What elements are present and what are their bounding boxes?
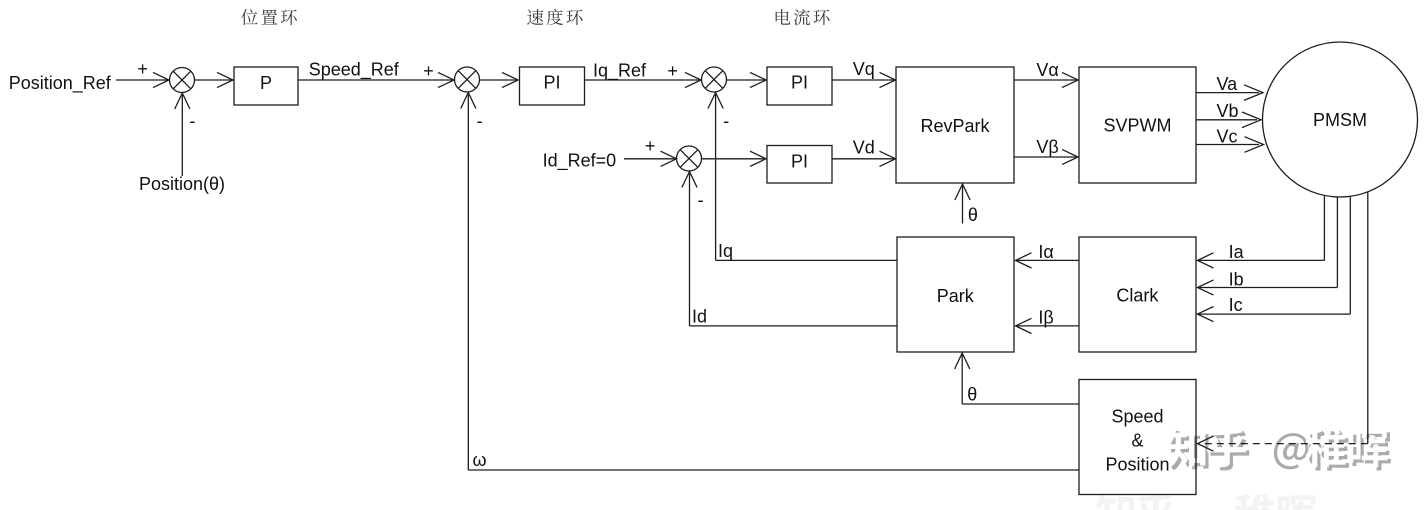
wire Ic horizontal [1199,313,1350,315]
watermark faint second row [1096,493,1317,510]
svg-text:-: - [477,111,483,131]
motor PMSM [1263,42,1418,197]
svg-text:ω: ω [473,450,487,470]
arrowhead Id feedback into SJ4 [682,172,697,188]
arrowhead Va into PMSM [1244,85,1263,101]
wire Vd [832,158,894,160]
wire Ia horizontal [1199,259,1324,261]
wire Va [1196,92,1259,94]
svg-text:Id_Ref=0: Id_Ref=0 [543,151,617,172]
arrowhead Iq feedback into SJ3 [708,93,723,109]
svg-text:θ: θ [967,385,977,405]
label 位置环 (position loop) [241,9,297,25]
svg-text:-: - [723,111,729,131]
svg-text:Ic: Ic [1229,295,1243,315]
wire Vb [1196,119,1257,121]
block Park (Park transform) [897,237,1014,352]
watermark 知乎 @稚晖 gray [1170,431,1391,471]
arrowhead into P block [217,72,233,87]
svg-text:Vq: Vq [853,59,875,79]
svg-text:Vb: Vb [1217,101,1239,121]
wire Id_Ref to SJ4 [624,158,675,160]
wire Iq horizontal from Park [716,259,897,261]
watermark white shadow copy [1167,427,1388,467]
svg-text:Speed: Speed [1111,407,1163,427]
wire sensor dashed into Speed&Position [1200,443,1368,445]
svg-text:SVPWM: SVPWM [1103,116,1171,136]
arrowhead V-beta into SVPWM [1062,149,1078,164]
svg-text:Park: Park [937,286,975,306]
wire Iq feedback vertical [715,95,717,261]
wire SJ1 to P block [195,79,232,81]
label 电流环 (current loop) [776,9,830,25]
arrowhead Vb into PMSM [1242,112,1261,128]
arrowhead theta into RevPark [955,184,970,200]
block Speed & Position estimator [1079,380,1196,495]
wire Vq [832,79,894,81]
wire Ib horizontal [1199,287,1337,289]
arrowhead I-beta into Park [1016,318,1032,333]
arrowhead into PI3 [750,151,766,166]
summing junction SJ2 (speed) [455,67,480,92]
summing junction SJ3 (Iq) [702,67,727,92]
white block fills [170,68,195,93]
svg-text:+: + [667,61,678,81]
wire Ib vertical from PMSM [1336,197,1338,288]
svg-text:Ib: Ib [1229,270,1244,290]
arrowhead sensor into Speed&Position [1198,436,1214,451]
wire I-alpha [1017,259,1079,261]
svg-text:Iq_Ref: Iq_Ref [593,61,647,82]
svg-text:Iβ: Iβ [1038,308,1053,328]
svg-text:Vc: Vc [1217,126,1238,146]
wire Speed_Ref [298,79,452,81]
svg-text:Iα: Iα [1038,242,1053,262]
svg-text:PI: PI [791,151,808,171]
wire SJ2 to PI1 [480,79,517,81]
arrowhead Ia into Clark [1198,253,1214,268]
block PI3 (Id controller) [767,146,832,184]
arrowhead omega feedback into SJ2 [461,93,476,109]
arrowhead Ib into Clark [1198,280,1214,295]
wire omega feedback horizontal [468,469,1079,471]
wire Id feedback vertical [689,174,691,326]
svg-text:PMSM: PMSM [1313,110,1367,130]
svg-text:Vd: Vd [853,138,875,158]
svg-text:Clark: Clark [1116,286,1159,306]
svg-text:Va: Va [1217,74,1239,94]
arrowhead theta into Park [955,353,970,369]
wire Position feedback vertical [181,95,183,176]
svg-text:+: + [423,61,434,81]
svg-text:+: + [137,59,148,79]
svg-text:PI: PI [543,73,560,93]
summing junction SJ1 (position) [170,68,195,93]
svg-text:Id: Id [692,307,707,327]
arrowhead into SJ2 [438,72,454,87]
wire SJ3 to PI2 [727,79,765,81]
arrowhead into SJ1 [153,72,169,87]
arrowhead V-alpha into SVPWM [1062,72,1078,87]
wire Position_Ref to SJ1 [116,79,168,81]
wire Id horizontal from Park [690,325,898,327]
svg-text:Iq: Iq [718,241,733,261]
svg-text:-: - [698,190,704,210]
wire Ia vertical from PMSM [1323,195,1325,260]
arrowhead Position feedback into SJ1 [175,93,190,109]
arrowhead Ic into Clark [1198,307,1214,322]
svg-text:Position(θ): Position(θ) [139,174,225,194]
arrowhead into SJ4 [661,151,677,166]
svg-text:Speed_Ref: Speed_Ref [309,60,400,81]
svg-text:Position_Ref: Position_Ref [9,73,112,94]
svg-text:Vβ: Vβ [1036,137,1058,157]
wire V-beta [1014,156,1076,158]
arrowhead into PI2 [750,72,766,87]
svg-text:-: - [189,111,195,131]
block PI1 (speed controller) [520,67,585,105]
block P (position controller) [234,67,298,105]
svg-text:θ: θ [968,205,978,225]
watermark at-sign [1274,433,1308,469]
svg-text:PI: PI [791,73,808,93]
svg-text:Vα: Vα [1036,60,1058,80]
arrowhead Vc into PMSM [1245,137,1264,153]
svg-text:RevPark: RevPark [920,116,990,136]
wire Iq_Ref [585,79,700,81]
svg-text:P: P [260,73,272,93]
wire theta from Speed&Position [962,403,1079,405]
label 速度环 (speed loop) [527,9,582,25]
wire V-alpha [1014,79,1076,81]
wire SJ4 to PI3 [702,158,765,160]
wire Vc [1196,144,1259,146]
block Clark (Clarke transform) [1079,237,1196,352]
svg-text:Position: Position [1105,455,1169,475]
wire Ic vertical from PMSM [1349,196,1351,314]
arrowhead Vq into RevPark [880,72,896,87]
wire I-beta [1017,325,1079,327]
svg-text:+: + [645,136,656,156]
arrowhead into PI1 [502,72,518,87]
wire theta stub into RevPark [962,186,964,224]
block RevPark (inverse Park transform) [896,67,1014,183]
wire theta vertical into Park [961,355,963,405]
block SVPWM [1079,67,1196,183]
wire speed feedback vertical [467,95,469,471]
arrowhead into SJ3 [685,72,701,87]
block PI2 (Iq controller) [767,67,832,105]
svg-text:&: & [1131,431,1143,451]
svg-text:Ia: Ia [1229,242,1245,262]
wire sensor vertical from PMSM [1367,192,1369,444]
arrowhead Vd into RevPark [880,151,896,166]
summing junction SJ4 (Id) [677,146,702,171]
arrowhead I-alpha into Park [1016,253,1032,268]
